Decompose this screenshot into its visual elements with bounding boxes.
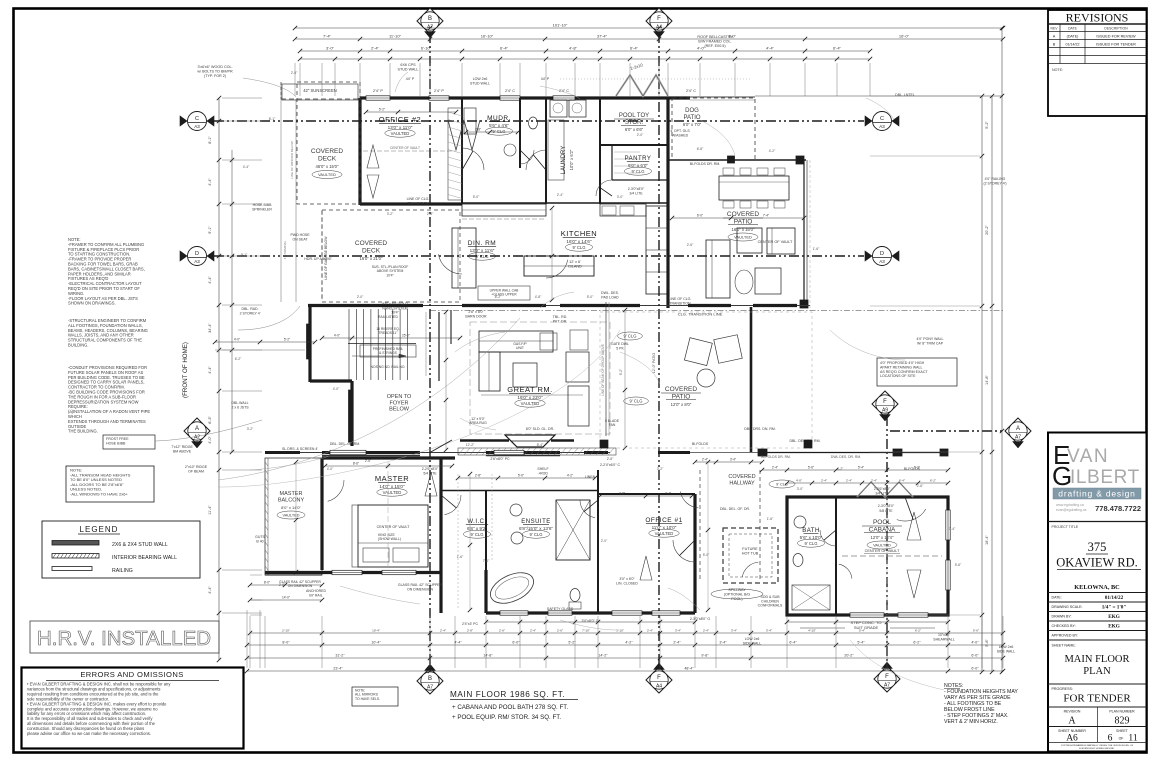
svg-text:2X6 & 2X4 STUD WALL: 2X6 & 2X4 STUD WALL	[112, 542, 168, 548]
great room interior dim line	[624, 310, 626, 448]
svg-text:14'-8": 14'-8"	[483, 654, 493, 658]
svg-text:evan@egdrafting.ca: evan@egdrafting.ca	[1056, 508, 1087, 512]
svg-text:5'-6": 5'-6"	[808, 466, 814, 470]
left low extension lines	[250, 574, 262, 576]
svg-text:ON DIMENSION: ON DIMENSION	[407, 587, 434, 591]
svg-text:6'-4": 6'-4"	[789, 641, 797, 645]
svg-text:(SHOW WALL): (SHOW WALL)	[378, 537, 401, 541]
progress cell	[1048, 683, 1147, 685]
svg-text:2'-10": 2'-10"	[282, 629, 290, 633]
south wall segment	[322, 451, 420, 454]
svg-text:W/ASHED: W/ASHED	[672, 133, 689, 137]
svg-text:2-2'4"x6'0" C: 2-2'4"x6'0" C	[600, 463, 620, 467]
svg-text:3'-0": 3'-0"	[797, 487, 804, 491]
master north wall	[322, 456, 455, 459]
wic shelving dashes	[457, 474, 459, 610]
svg-text:SIDE WALL: SIDE WALL	[743, 641, 762, 645]
svg-text:PATIO: PATIO	[683, 115, 700, 121]
south windows cabana	[850, 613, 884, 617]
foyer east wall	[438, 312, 440, 381]
svg-text:6'-4": 6'-4"	[899, 479, 905, 483]
great room south wall with fireplace	[265, 452, 610, 454]
svg-text:BY RAIL: BY RAIL	[309, 593, 322, 597]
svg-text:MAIN FLOOR: MAIN FLOOR	[1064, 654, 1129, 665]
svg-text:4'-2": 4'-2"	[625, 641, 633, 645]
south windows office1	[612, 611, 642, 615]
svg-text:THE BUILDING.: THE BUILDING.	[68, 429, 98, 434]
revisions table	[1048, 10, 1147, 116]
errors and omissions box	[22, 668, 244, 749]
svg-text:2-3'0"x8'0" G: 2-3'0"x8'0" G	[690, 617, 710, 621]
bottom dimension row 3	[247, 657, 1003, 659]
svg-text:D: D	[195, 251, 199, 257]
svg-text:MAIN FLOOR 1986 SQ. FT.: MAIN FLOOR 1986 SQ. FT.	[450, 690, 565, 699]
more leaders	[455, 332, 505, 352]
dog patio top stud wall	[690, 96, 755, 98]
svg-text:B: B	[1053, 42, 1056, 46]
svg-text:11'-10": 11'-10"	[389, 34, 402, 39]
svg-text:5'-6": 5'-6"	[955, 563, 962, 567]
ensuite south wall	[486, 611, 695, 614]
svg-text:5'-0": 5'-0"	[587, 295, 594, 299]
svg-text:A: A	[1068, 716, 1076, 727]
svg-text:PKT. DR.: PKT. DR.	[553, 319, 567, 323]
svg-text:VAULTED: VAULTED	[283, 514, 300, 518]
svg-text:HOT TUB: HOT TUB	[742, 552, 759, 556]
svg-text:BI-FOLDS DR. RM.: BI-FOLDS DR. RM.	[690, 162, 721, 166]
svg-text:FOYER: FOYER	[390, 400, 409, 406]
svg-text:4'-4": 4'-4"	[454, 641, 462, 645]
svg-text:37'-4": 37'-4"	[597, 34, 608, 39]
svg-text:VAULTED: VAULTED	[391, 131, 410, 136]
svg-text:BM ABOVE: BM ABOVE	[173, 449, 192, 453]
right extension lines	[870, 95, 980, 97]
svg-text:ELEVEN EIGHT HOMES GROUND.: ELEVEN EIGHT HOMES GROUND.	[1079, 748, 1115, 750]
svg-text:DBL. DEL. OF. DR.: DBL. DEL. OF. DR.	[720, 507, 750, 511]
extra leader arcs	[340, 586, 420, 604]
top dimension row 4	[300, 58, 870, 60]
logo drafting and design band	[1053, 488, 1141, 499]
svg-text:48'-4": 48'-4"	[684, 667, 694, 671]
svg-text:REV: REV	[1051, 27, 1059, 31]
patio post NE	[728, 156, 735, 163]
svg-text:VERT & 2' MIN HORIZ.: VERT & 2' MIN HORIZ.	[944, 719, 998, 725]
great room ottoman	[513, 363, 537, 387]
svg-text:STUD WALL: STUD WALL	[470, 81, 490, 85]
window W4	[553, 96, 575, 100]
svg-text:10'-4": 10'-4"	[371, 641, 381, 645]
door arcs extra	[438, 254, 462, 274]
svg-text:FUTURE: FUTURE	[742, 547, 758, 551]
svg-text:DECK: DECK	[362, 247, 381, 254]
right dimension verticals	[981, 96, 983, 672]
bath-cabana divider	[835, 497, 837, 615]
svg-text:REVISIONS: REVISIONS	[1066, 11, 1129, 25]
south wall segment	[486, 451, 560, 454]
retaining wall note box	[877, 358, 957, 386]
section line D horizontal	[214, 255, 864, 257]
svg-text:3/4 LITE: 3/4 LITE	[629, 191, 643, 195]
svg-text:5'-0": 5'-0"	[703, 553, 710, 557]
svg-text:3'-0": 3'-0"	[617, 195, 624, 199]
svg-text:25'-0": 25'-0"	[402, 334, 410, 338]
svg-text:ISSUED FOR REVIEW: ISSUED FOR REVIEW	[1096, 34, 1136, 38]
svg-text:B: B	[428, 676, 432, 682]
office2 door triangles	[367, 145, 379, 168]
svg-text:PLAN: PLAN	[1083, 666, 1111, 677]
leader to deck	[238, 306, 300, 330]
svg-text:9' CLG: 9' CLG	[530, 532, 543, 537]
balcony south rail	[265, 574, 322, 576]
svg-text:2'-4": 2'-4"	[673, 641, 681, 645]
svg-text:A7: A7	[1015, 434, 1021, 440]
svg-text:TRANSITION: TRANSITION	[407, 201, 429, 205]
svg-text:ENSUITE: ENSUITE	[521, 519, 551, 525]
svg-text:SHEET NUMBER: SHEET NUMBER	[1058, 729, 1086, 733]
interior dim office2	[366, 111, 456, 113]
dog patio dashed outline	[672, 98, 755, 160]
svg-text:6X6 CPS: 6X6 CPS	[400, 63, 416, 67]
svg-text:3'-2": 3'-2"	[657, 467, 664, 471]
svg-text:6'-0": 6'-0"	[971, 654, 979, 658]
svg-text:3'-4": 3'-4"	[766, 629, 772, 633]
legend railing symbol	[52, 567, 92, 571]
svg-text:44" P: 44" P	[541, 77, 550, 81]
closet hatch strip	[448, 108, 462, 200]
svg-text:W.I.C.: W.I.C.	[467, 519, 486, 525]
bifold door wall segment	[308, 304, 423, 307]
svg-text:5'-2": 5'-2"	[985, 121, 989, 129]
laundry east wall	[599, 98, 601, 204]
svg-text:LIN. CLOSED: LIN. CLOSED	[616, 581, 638, 585]
svg-text:GREAT RM.: GREAT RM.	[507, 385, 552, 394]
lower patio tilted chair 2	[714, 335, 742, 363]
svg-text:COVERED: COVERED	[665, 386, 697, 393]
frost hose bibb box	[103, 435, 155, 449]
svg-text:6'-0": 6'-0"	[697, 214, 703, 218]
balcony interior dim	[295, 462, 297, 572]
svg-text:2'-0": 2'-0"	[357, 295, 364, 299]
heavy door bars south glass wall	[486, 455, 560, 457]
svg-text:A3: A3	[194, 124, 200, 129]
svg-text:12'0" x 12'4": 12'0" x 12'4"	[871, 535, 894, 540]
patio square table	[737, 228, 762, 253]
svg-text:4'-4": 4'-4"	[766, 46, 775, 51]
svg-text:8'0" x 14'0": 8'0" x 14'0"	[281, 505, 301, 510]
entry pivot door	[430, 440, 452, 453]
svg-text:2'-8": 2'-8"	[467, 629, 473, 633]
svg-text:(OPTIONAL B/G: (OPTIONAL B/G	[724, 592, 751, 596]
svg-text:DIN. RM: DIN. RM	[468, 240, 496, 247]
svg-text:9' CLG: 9' CLG	[493, 129, 506, 134]
section bubble D right	[865, 251, 872, 261]
svg-text:4'-8": 4'-8"	[535, 295, 542, 299]
svg-text:FOR TENDER: FOR TENDER	[1063, 693, 1131, 705]
svg-text:A3: A3	[879, 259, 885, 264]
detail diamond F right	[872, 391, 898, 417]
ensuite wc	[570, 589, 580, 602]
svg-text:BATH: BATH	[802, 528, 820, 534]
svg-text:6'-4": 6'-4"	[500, 46, 509, 51]
section diamond F bottom	[646, 667, 672, 693]
stair railing bar west	[307, 324, 311, 359]
section line B vertical	[429, 33, 431, 668]
svg-text:+ CABANA AND POOL BATH 278 SQ.: + CABANA AND POOL BATH 278 SQ. FT.	[452, 704, 568, 711]
svg-text:778.478.7722: 778.478.7722	[1095, 504, 1141, 513]
svg-text:COVERED: COVERED	[728, 474, 755, 480]
section line C horizontal	[214, 120, 864, 122]
svg-text:12'0" x 8'0": 12'0" x 8'0"	[671, 402, 692, 407]
stair boxed note	[360, 345, 416, 357]
svg-text:VAULTED: VAULTED	[383, 490, 402, 495]
svg-text:2'4" P: 2'4" P	[373, 89, 383, 93]
deck mid-left dashed	[322, 210, 460, 302]
svg-text:LINE OF WINDOW BELOW: LINE OF WINDOW BELOW	[290, 141, 294, 179]
patio dining table	[719, 176, 789, 200]
stair railing bar south	[349, 390, 353, 442]
section diamond B top	[417, 8, 443, 34]
svg-text:9'-8": 9'-8"	[701, 654, 709, 658]
svg-text:829: 829	[1115, 716, 1130, 727]
svg-text:w/ BOLTS TO BM/PR: w/ BOLTS TO BM/PR	[197, 70, 233, 74]
svg-text:ON SEAT: ON SEAT	[292, 237, 308, 241]
svg-text:APART RETAINING WALL: APART RETAINING WALL	[880, 365, 923, 369]
svg-text:VAULTED: VAULTED	[873, 543, 891, 548]
svg-text:3'x6'x6" WOOD COL.: 3'x6'x6" WOOD COL.	[197, 65, 232, 69]
below-master dims	[250, 584, 322, 586]
patio north beam	[668, 159, 806, 161]
svg-text:1'-6": 1'-6"	[767, 517, 774, 521]
svg-text:2'4" P: 2'4" P	[434, 89, 444, 93]
svg-text:PAD LOAD: PAD LOAD	[601, 295, 619, 299]
master balcony rail west	[265, 458, 322, 575]
svg-text:SPILLWAY: SPILLWAY	[728, 588, 746, 592]
svg-text:HALLWAY: HALLWAY	[729, 480, 755, 486]
svg-text:2'-4": 2'-4"	[530, 629, 536, 633]
svg-text:31'-2": 31'-2"	[335, 654, 345, 658]
pantry shelves	[614, 151, 640, 153]
svg-text:CONFORMALS: CONFORMALS	[758, 604, 783, 608]
svg-text:ISSUED FOR TENDER: ISSUED FOR TENDER	[1096, 42, 1136, 46]
left dimension vertical chain	[218, 98, 220, 660]
stair treads vertical	[348, 309, 350, 380]
ensuite sinks	[510, 504, 522, 516]
svg-text:2'4" C: 2'4" C	[505, 89, 515, 93]
svg-text:NOTE:: NOTE:	[1052, 68, 1063, 72]
dashed roofline overhang right	[809, 160, 811, 308]
svg-text:DBL. DRS. DN. RM.: DBL. DRS. DN. RM.	[744, 427, 776, 431]
svg-text:3'-4": 3'-4"	[719, 641, 727, 645]
svg-text:4'0" PROPOSED 4'0" HIGH: 4'0" PROPOSED 4'0" HIGH	[880, 361, 925, 365]
svg-text:6'-10": 6'-10"	[421, 46, 432, 51]
svg-text:2'-4": 2'-4"	[557, 193, 564, 197]
west roofline verticals	[280, 82, 282, 302]
window W1	[366, 96, 390, 100]
svg-text:www.egdrafting.ca: www.egdrafting.ca	[1056, 503, 1084, 507]
patio east screen wall	[803, 160, 805, 308]
svg-text:KITCHEN: KITCHEN	[561, 229, 597, 238]
curved leader from notes	[218, 318, 520, 480]
svg-text:F: F	[657, 675, 661, 681]
svg-text:(TYP. FOR 2): (TYP. FOR 2)	[204, 74, 226, 78]
svg-text:& STRINGS: & STRINGS	[379, 351, 398, 355]
svg-text:A: A	[195, 426, 199, 432]
svg-text:A7: A7	[427, 684, 433, 690]
top dimension row 2	[295, 38, 1003, 40]
master-wic wall	[439, 458, 442, 613]
svg-text:OFFICE #2: OFFICE #2	[379, 115, 421, 124]
section line A right	[890, 430, 1006, 432]
kitchen tall cabinets	[646, 206, 668, 294]
svg-text:11'-4": 11'-4"	[208, 505, 212, 515]
dotted ceiling line top	[560, 78, 752, 80]
ceiling transition dashed line	[430, 310, 1003, 312]
svg-text:H.R.V. INSTALLED: H.R.V. INSTALLED	[37, 628, 211, 650]
svg-text:DWL DES. DR. RM.: DWL DES. DR. RM.	[831, 455, 861, 459]
svg-text:SHEARWALL: SHEARWALL	[933, 637, 954, 641]
mirrors note box	[352, 687, 398, 706]
svg-text:4'-4": 4'-4"	[208, 366, 212, 374]
svg-text:10'-4": 10'-4"	[372, 629, 380, 633]
svg-text:01/14/22: 01/14/22	[1066, 42, 1080, 46]
svg-text:2'-0": 2'-0"	[637, 133, 644, 137]
great room side table	[540, 333, 557, 350]
great room sectional sofa	[479, 331, 553, 352]
patio sofa	[706, 240, 730, 298]
pool toy store walls	[600, 144, 668, 146]
svg-text:MASTER: MASTER	[280, 491, 303, 497]
bath cabana block walls	[787, 497, 948, 615]
svg-text:9' CLG: 9' CLG	[805, 541, 818, 546]
svg-text:SHEET NAME:: SHEET NAME:	[1052, 644, 1076, 648]
section bubble C left	[180, 116, 187, 126]
hall dim vertical	[707, 462, 709, 610]
svg-text:TREADS 11": TREADS 11"	[379, 331, 399, 335]
svg-text:B: B	[428, 16, 432, 22]
interior dim cabana row	[762, 469, 948, 471]
svg-text:VAULTED: VAULTED	[734, 235, 752, 240]
svg-text:8'-0": 8'-0"	[264, 581, 270, 585]
svg-text:REVISION: REVISION	[1064, 710, 1081, 714]
svg-text:2'-6": 2'-6"	[687, 243, 694, 247]
svg-text:5'-0": 5'-0"	[473, 195, 480, 199]
title block frame	[1048, 433, 1147, 752]
svg-text:TRANSITION: TRANSITION	[669, 301, 691, 305]
svg-text:2'-6": 2'-6"	[917, 484, 924, 488]
svg-text:4'-2": 4'-2"	[769, 149, 776, 153]
svg-text:VAULTED: VAULTED	[318, 172, 336, 177]
svg-text:BARN DOOR: BARN DOOR	[465, 314, 487, 318]
office1 door triangles	[640, 556, 652, 580]
east wall cabana center	[886, 497, 888, 615]
cabana door swing triangles	[907, 512, 921, 540]
window W3	[500, 96, 520, 100]
svg-text:8'-3": 8'-3"	[208, 416, 212, 424]
cabana bottom dims	[787, 621, 948, 623]
svg-text:14'-2": 14'-2"	[598, 654, 608, 658]
svg-text:BI-FOLDS: BI-FOLDS	[692, 442, 709, 446]
svg-text:2'-4": 2'-4"	[440, 629, 446, 633]
title block disclaimer	[1048, 742, 1147, 744]
master south wall	[265, 571, 441, 574]
svg-text:34'-4": 34'-4"	[208, 323, 212, 333]
svg-text:4'-4": 4'-4"	[208, 276, 212, 284]
svg-text:DBL. DEL. OF. RM.: DBL. DEL. OF. RM.	[330, 442, 360, 446]
interior dim patio row	[672, 217, 804, 219]
svg-text:POOL TOY: POOL TOY	[619, 113, 649, 119]
svg-text:3'-0": 3'-0"	[326, 46, 335, 51]
south wall segment	[265, 451, 300, 454]
svg-text:+ROD: +ROD	[538, 471, 548, 475]
svg-text:OFFICE #1: OFFICE #1	[645, 517, 682, 524]
south windows master	[332, 570, 362, 574]
svg-text:DBL. LNTEL: DBL. LNTEL	[895, 93, 915, 97]
svg-text:16'0" x 21'0": 16'0" x 21'0"	[360, 256, 383, 261]
svg-text:CENTER OF VAULT: CENTER OF VAULT	[865, 549, 900, 553]
project title cell	[1048, 521, 1147, 523]
interior vertical dim kitchen	[551, 208, 553, 300]
svg-text:INTERIOR BEARING WALL: INTERIOR BEARING WALL	[112, 555, 177, 561]
svg-text:6'-2": 6'-2"	[913, 641, 921, 645]
svg-text:COVERED: COVERED	[355, 240, 387, 247]
bottom dimension row 2	[247, 644, 1003, 646]
revision and plan number cells	[1048, 706, 1147, 708]
svg-text:16'-10": 16'-10"	[481, 34, 494, 39]
svg-text:10'0" x 6'2": 10'0" x 6'2"	[569, 149, 574, 170]
svg-text:8'0" SLD. GL. DR.: 8'0" SLD. GL. DR.	[526, 427, 554, 431]
svg-text:SL.DRS. & SCREEN 4': SL.DRS. & SCREEN 4'	[282, 447, 318, 451]
svg-text:2'-4": 2'-4"	[647, 629, 653, 633]
svg-text:2'-8": 2'-8"	[475, 128, 481, 132]
svg-text:COPYRIGHT/DRAWINGS PARTIALLY O: COPYRIGHT/DRAWINGS PARTIALLY ORIGIN. THE…	[1061, 744, 1134, 747]
svg-text:ON DIMENSION: ON DIMENSION	[288, 584, 313, 588]
svg-text:7'-6": 7'-6"	[483, 559, 490, 563]
shower	[556, 500, 590, 560]
top extension lines	[294, 63, 296, 96]
patio post N2	[796, 156, 804, 164]
bifold door wall segment	[560, 304, 640, 307]
svg-text:2'6"x8'0" PC: 2'6"x8'0" PC	[490, 457, 510, 461]
mud closet wall	[519, 98, 521, 168]
covered deck edge dashed	[215, 349, 305, 351]
svg-text:12'-2": 12'-2"	[466, 443, 475, 447]
lower patio table	[697, 369, 715, 387]
greatroom south wall upper segments	[460, 439, 509, 442]
deck dim row	[322, 337, 460, 339]
svg-text:4'-0": 4'-0"	[327, 467, 334, 471]
svg-text:B/W FRAMED COL.: B/W FRAMED COL.	[698, 40, 731, 44]
svg-text:W/ 8" TRIM CAP: W/ 8" TRIM CAP	[917, 341, 944, 345]
interior vertical dim greatroom	[445, 312, 447, 450]
svg-text:C: C	[195, 116, 199, 122]
svg-text:DESCRIPTION: DESCRIPTION	[1104, 27, 1128, 31]
svg-text:ILBERT: ILBERT	[1070, 467, 1140, 488]
stair void south wall	[350, 381, 353, 446]
leader hose bibb	[155, 420, 262, 441]
svg-text:UNIT: UNIT	[516, 346, 524, 350]
svg-text:A6: A6	[1066, 734, 1078, 744]
section line F vertical	[658, 33, 660, 668]
svg-text:5'-4": 5'-4"	[858, 466, 864, 470]
top exterior wall	[360, 96, 690, 99]
svg-text:4'-0": 4'-0"	[971, 641, 979, 645]
svg-text:2'-8": 2'-8"	[427, 212, 434, 216]
cabana north zigzag door	[857, 482, 913, 497]
svg-text:3'-2": 3'-2"	[247, 427, 254, 431]
svg-text:F: F	[657, 16, 661, 22]
left extension lines	[222, 97, 262, 99]
top dimension row 3	[300, 50, 870, 52]
